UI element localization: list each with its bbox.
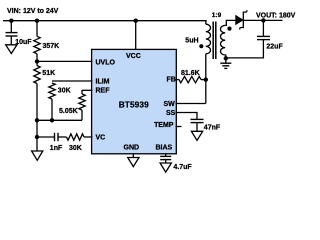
wire SW node vertical: [205, 54, 207, 104]
wire R3 bottom to bus: [51, 99, 53, 120]
svg-text:VC: VC: [96, 135, 106, 142]
capacitor C1 10uF: [6, 33, 18, 36]
wire C4 bottom lead: [196, 123, 198, 132]
wire REF to R4: [82, 89, 93, 91]
node R3/bus junction: [50, 118, 54, 122]
svg-text:4.7uF: 4.7uF: [173, 164, 192, 171]
resistor R6 81.6K: [179, 76, 201, 82]
earth ground secondary: [220, 58, 231, 68]
svg-text:1nF: 1nF: [50, 145, 63, 152]
node VOUT junction: [261, 18, 265, 22]
svg-text:5.05K: 5.05K: [59, 108, 78, 115]
svg-text:47nF: 47nF: [204, 125, 221, 132]
wire VIN rail: [3, 20, 207, 22]
resistor R4 5.05K: [79, 94, 85, 110]
wire primary top lead: [205, 21, 207, 25]
capacitor C3 4.7uF: [160, 156, 171, 159]
wire TEMP pin stub: [176, 126, 182, 128]
svg-text:FB: FB: [167, 76, 176, 83]
wire R4 bottom to bus: [81, 110, 83, 120]
svg-text:22uF: 22uF: [266, 43, 283, 50]
diode D1 schottky: [236, 10, 247, 29]
transformer T1 secondary winding: [221, 25, 226, 55]
wire secondary top lead: [225, 20, 236, 25]
wire R1 bottom to UVLO node: [36, 54, 38, 66]
wire R2 bottom to ground bus: [36, 84, 38, 152]
svg-text:VCC: VCC: [126, 53, 141, 60]
svg-text:5uH: 5uH: [185, 38, 198, 45]
wire VC branch left: [37, 136, 55, 138]
svg-text:10uF: 10uF: [15, 39, 32, 46]
node UVLO divider junction: [35, 59, 39, 63]
capacitor C4 47nF: [191, 119, 204, 122]
svg-text:VOUT: 180V: VOUT: 180V: [256, 12, 296, 19]
svg-text:TEMP: TEMP: [154, 122, 174, 129]
wire C5 bottom to secondary ground: [226, 40, 264, 58]
wire ILIM to R3: [52, 80, 93, 82]
svg-text:357K: 357K: [43, 43, 60, 50]
svg-text:51K: 51K: [42, 70, 55, 77]
resistor R2 51K: [34, 66, 40, 84]
wire SW pin: [176, 103, 206, 105]
phase dot secondary: [227, 27, 231, 31]
wire diode cathode to VOUT: [243, 19, 282, 21]
wire UVLO to IC: [37, 60, 93, 62]
wire R6 to SW node: [201, 79, 206, 81]
wire ground bus: [37, 119, 82, 121]
node FB/SW junction: [204, 77, 208, 81]
node VIN/C1 junction: [9, 19, 13, 23]
node secondary ground junction: [224, 56, 228, 60]
wire R4 top lead: [81, 90, 83, 94]
phase dot primary: [199, 44, 203, 48]
svg-text:BT5939: BT5939: [119, 99, 149, 109]
resistor R5 30K: [67, 134, 85, 140]
wire VCC to VIN rail: [135, 21, 137, 50]
transformer T1 core: [213, 22, 216, 60]
node VC branch junction: [35, 135, 39, 139]
wire C3 bottom lead: [165, 160, 167, 163]
IC U1 BT5939 body: [92, 49, 177, 153]
wire GND pin stub: [132, 153, 134, 157]
svg-text:1:9: 1:9: [212, 12, 222, 19]
ground under C1: [6, 45, 17, 54]
svg-text:SS: SS: [166, 110, 176, 117]
node VCC/rail junction: [134, 19, 138, 23]
svg-text:UVLO: UVLO: [96, 60, 116, 67]
ground under C3: [160, 163, 171, 172]
wire C1 top lead: [10, 21, 12, 33]
wire FB pin lead: [176, 79, 180, 81]
svg-text:REF: REF: [96, 88, 111, 95]
capacitor C2 1nF: [55, 133, 59, 141]
ground left rail: [32, 151, 43, 160]
svg-text:30K: 30K: [58, 87, 71, 94]
node VIN/R1 junction: [35, 19, 39, 23]
ground under GND pin: [128, 158, 139, 167]
svg-text:81.6K: 81.6K: [181, 70, 200, 77]
resistor R1 357K: [34, 36, 40, 54]
resistor R3 30K: [49, 83, 55, 99]
wire C2 to R5: [58, 136, 67, 138]
wire C1 bottom lead: [10, 36, 12, 45]
wire R1 top lead: [36, 21, 38, 37]
wire BIAS pin stub: [165, 153, 167, 156]
svg-text:30K: 30K: [69, 145, 82, 152]
transformer T1 primary winding: [206, 24, 211, 54]
wire R5 to VC pin: [84, 136, 93, 138]
node bus/left rail junction: [35, 118, 39, 122]
wire C5 top lead: [262, 20, 264, 36]
capacitor C5 22uF: [257, 36, 270, 39]
ground under C4: [191, 131, 202, 140]
svg-text:GND: GND: [124, 145, 140, 152]
wire SS pin: [176, 113, 198, 120]
svg-text:SW: SW: [164, 101, 176, 108]
svg-text:BIAS: BIAS: [156, 145, 173, 152]
wire secondary bottom lead: [224, 55, 227, 58]
svg-text:VIN: 12V to 24V: VIN: 12V to 24V: [7, 8, 59, 15]
svg-text:ILIM: ILIM: [96, 79, 110, 86]
